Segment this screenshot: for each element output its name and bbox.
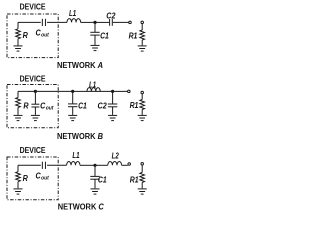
- svg-text:out: out: [46, 105, 55, 111]
- svg-text:R1: R1: [130, 175, 139, 184]
- svg-text:C1: C1: [100, 31, 109, 40]
- svg-text:out: out: [41, 175, 50, 181]
- svg-text:C1: C1: [78, 101, 87, 110]
- svg-text:L1: L1: [69, 9, 77, 18]
- svg-text:R: R: [23, 174, 28, 183]
- svg-text:R1: R1: [129, 31, 138, 40]
- svg-text:L2: L2: [112, 151, 120, 160]
- svg-text:R: R: [23, 101, 28, 110]
- svg-text:C2: C2: [98, 101, 108, 110]
- svg-text:NETWORK B: NETWORK B: [57, 132, 103, 141]
- svg-text:C2: C2: [106, 11, 116, 20]
- svg-text:L1: L1: [72, 151, 80, 160]
- svg-text:out: out: [41, 32, 50, 38]
- svg-text:C: C: [36, 29, 41, 38]
- svg-text:NETWORK A: NETWORK A: [57, 61, 103, 70]
- svg-text:DEVICE: DEVICE: [20, 3, 47, 12]
- svg-text:C1: C1: [98, 175, 107, 184]
- svg-text:C: C: [36, 172, 41, 181]
- svg-text:L1: L1: [89, 80, 97, 89]
- svg-text:DEVICE: DEVICE: [20, 74, 47, 83]
- svg-text:NETWORK C: NETWORK C: [58, 202, 104, 211]
- svg-text:DEVICE: DEVICE: [20, 146, 47, 155]
- svg-text:R1: R1: [130, 101, 139, 110]
- svg-text:R: R: [23, 31, 28, 40]
- svg-text:C: C: [40, 101, 45, 110]
